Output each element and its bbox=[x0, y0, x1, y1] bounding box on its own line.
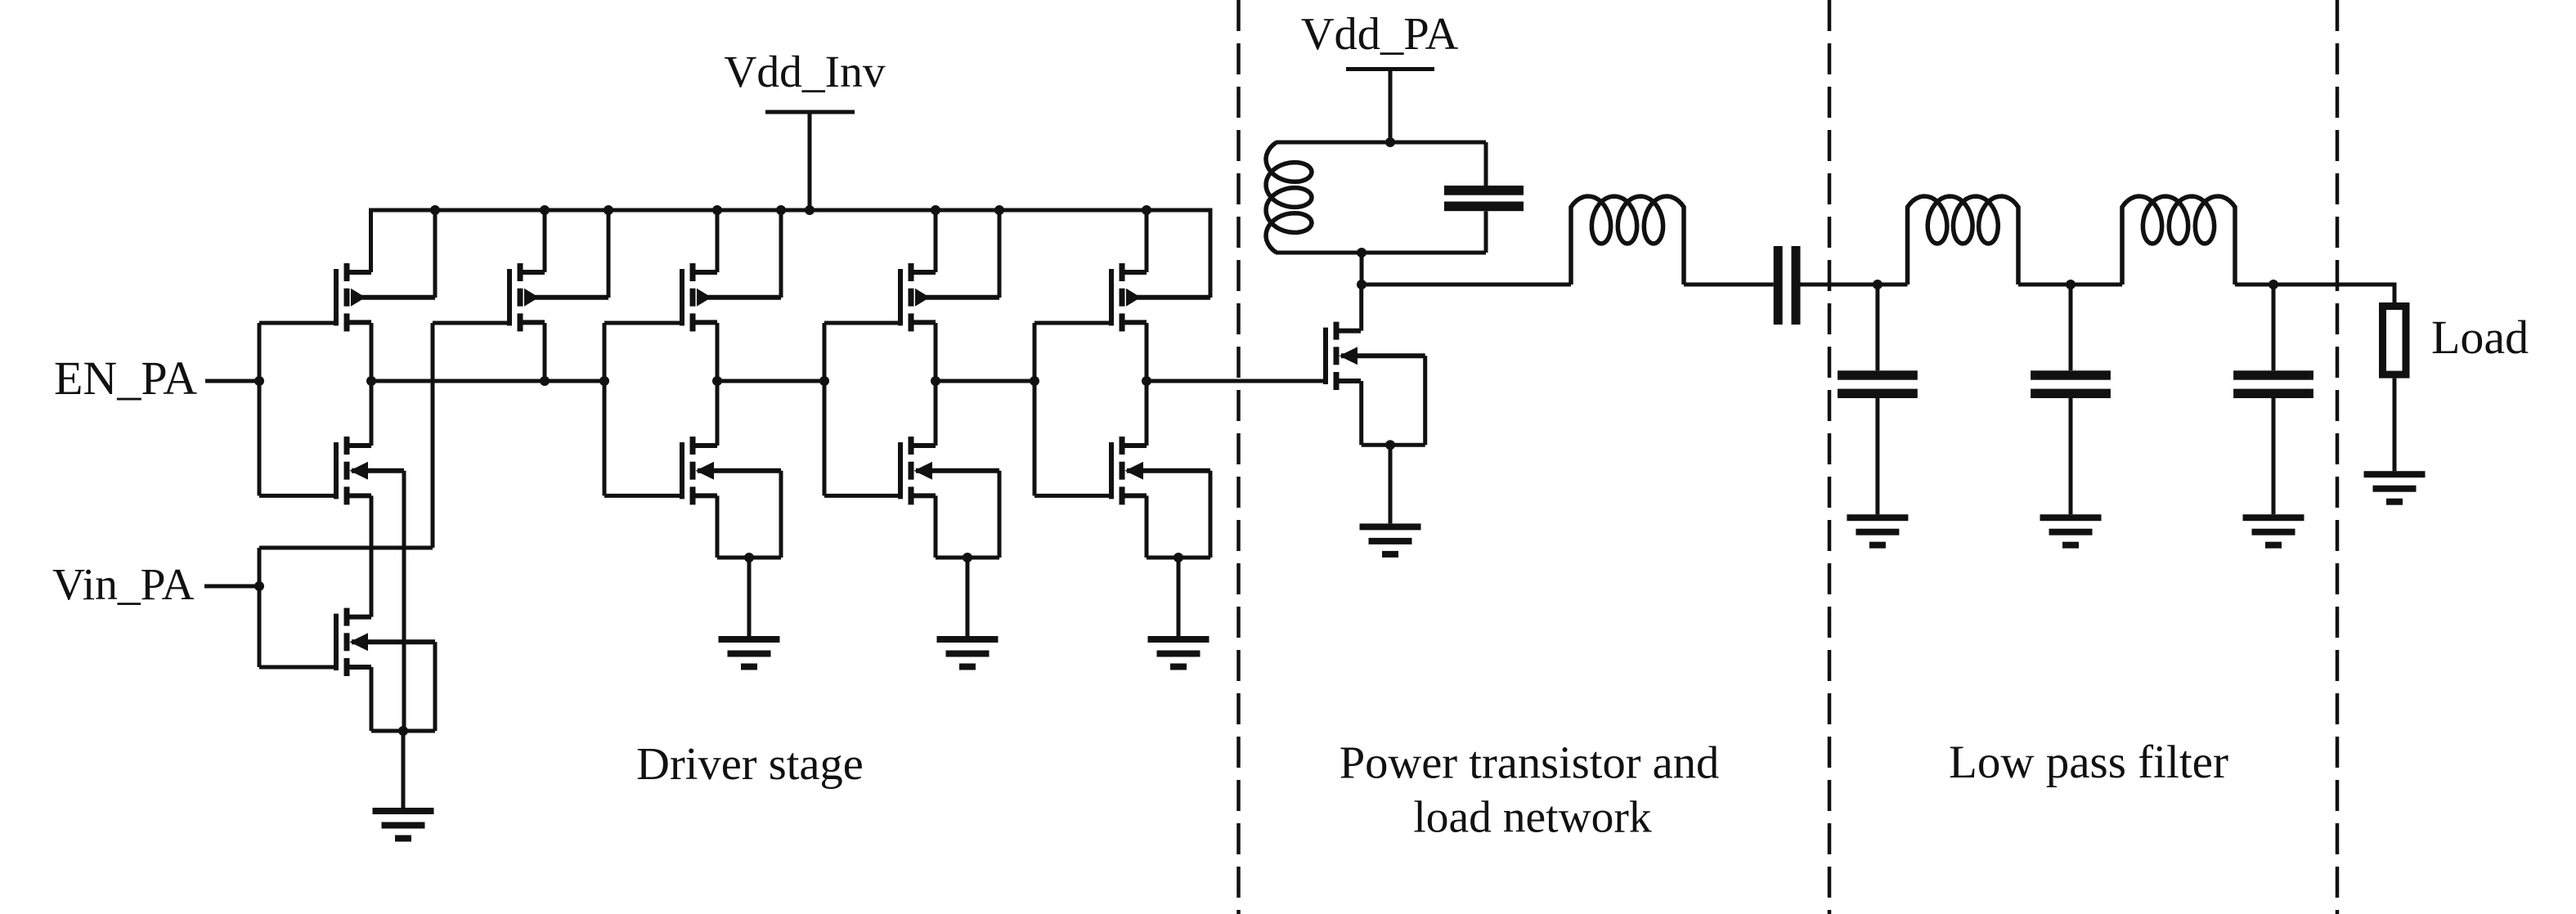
wire inverter 1 ground stem bbox=[747, 558, 752, 636]
transistor M8 NMOS (inverter 2) bbox=[900, 437, 999, 504]
wire tank bottom bbox=[1276, 251, 1486, 255]
wire inverter 1 NMOS drain up bbox=[716, 381, 720, 446]
wire drain node riser bbox=[1360, 253, 1364, 285]
wire M2 gate riser bbox=[431, 323, 435, 548]
wire inverter 2 NMOS body down bbox=[998, 471, 1002, 558]
svg-text:Driver stage: Driver stage bbox=[636, 739, 864, 790]
capacitor C2 (series DC block) bbox=[1774, 246, 1801, 325]
wire C2 to LPF node 1 bbox=[1801, 283, 1908, 287]
wire inverter 3 source tie bar bbox=[1147, 556, 1210, 560]
wire drain node to L2 bbox=[1362, 283, 1571, 287]
power symbol Vdd_PA supply bar bbox=[1346, 67, 1434, 71]
transistor M10 NMOS (inverter 3) bbox=[1111, 437, 1210, 504]
transistor M5 PMOS (inverter 1) bbox=[682, 263, 781, 331]
wire Vin_PA riser bbox=[258, 548, 262, 667]
wire tank top bbox=[1276, 141, 1486, 145]
wire Vin_PA lead bbox=[204, 585, 259, 589]
wire inverter 1 input riser bbox=[603, 323, 607, 495]
wire inverter 1 NMOS body down bbox=[779, 471, 783, 558]
wire shunt capacitor C3 to ground bbox=[1875, 398, 1879, 514]
ground inverter 1 bbox=[719, 636, 780, 670]
inductor L3 (LPF) bbox=[1908, 196, 2019, 285]
wire Vdd_Inv rail bbox=[371, 210, 1211, 298]
wire power NMOS source down bbox=[1359, 381, 1363, 445]
wire shunt capacitor C3 riser bbox=[1875, 285, 1879, 370]
wire power NMOS body down bbox=[1423, 356, 1427, 445]
wire M4 source down bbox=[370, 667, 374, 731]
wire inverter 2 NMOS gate lead bbox=[824, 494, 900, 498]
wire EN_PA gate riser bbox=[258, 323, 262, 495]
transistor M10 power NMOS bbox=[1326, 322, 1425, 390]
wire inverter 3 output bbox=[1147, 379, 1326, 383]
ground inverter 3 bbox=[1148, 636, 1209, 670]
resistor Load bbox=[2383, 307, 2407, 375]
wire load to ground bbox=[2393, 379, 2397, 472]
wire L2 to C2 bbox=[1684, 283, 1774, 287]
section divider dashed line 2 bbox=[1828, 0, 1832, 914]
section divider dashed line 1 bbox=[1236, 0, 1241, 914]
wire LPF node 2 bbox=[2018, 283, 2122, 287]
wire M3 gate lead bbox=[259, 494, 336, 498]
inductor L2 (series matching) bbox=[1571, 196, 1684, 285]
inductor L4 (LPF) bbox=[2122, 196, 2235, 285]
wire inverter 1 PMOS body to rail bbox=[779, 210, 783, 298]
wire M1 drain down bbox=[370, 323, 374, 381]
wire NAND output node bbox=[371, 379, 604, 383]
wire inverter 2 NMOS drain up bbox=[934, 381, 938, 446]
wire Vin_PA horizontal bbox=[259, 546, 433, 550]
wire Vdd_PA stem bbox=[1389, 69, 1393, 143]
capacitor C1 (tank) bbox=[1444, 142, 1524, 253]
wire inverter 2 PMOS body to rail bbox=[998, 210, 1002, 298]
wire M3 body down bbox=[402, 471, 406, 731]
wire power NMOS drain riser bbox=[1359, 285, 1363, 331]
ground NAND stage bbox=[373, 808, 434, 842]
wire inverter 2 output bbox=[936, 379, 1034, 383]
ground inverter 2 bbox=[937, 636, 999, 670]
wire M2 source to rail bbox=[543, 210, 547, 272]
wire shunt capacitor C5 riser bbox=[2272, 285, 2276, 370]
wire inverter 1 NMOS source down bbox=[716, 495, 720, 558]
wire inverter 3 NMOS source down bbox=[1145, 495, 1149, 558]
wire inverter 3 ground stem bbox=[1177, 558, 1181, 636]
wire inverter 3 NMOS body down bbox=[1209, 471, 1213, 558]
capacitor C4 (LPF shunt) bbox=[2031, 370, 2111, 398]
wire power NMOS ground stem bbox=[1389, 445, 1393, 523]
wire inverter 1 NMOS gate lead bbox=[604, 494, 682, 498]
transistor M6 NMOS (inverter 1) bbox=[682, 437, 781, 504]
wire inverter 2 PMOS gate lead bbox=[824, 321, 900, 325]
wire M4 gate lead bbox=[259, 665, 336, 670]
wire inverter 2 NMOS source down bbox=[934, 495, 938, 558]
capacitor C3 (LPF shunt) bbox=[1838, 370, 1918, 398]
wire M3 drain up bbox=[370, 381, 374, 446]
wire inverter 1 PMOS drain down bbox=[716, 323, 720, 381]
wire power NMOS tie bar bbox=[1362, 443, 1425, 447]
wire M2 drain down bbox=[543, 323, 547, 381]
wire inverter 2 input riser bbox=[823, 323, 827, 495]
wire inverter 1 PMOS gate lead bbox=[604, 321, 682, 325]
wire NAND source tie bar bbox=[371, 729, 435, 733]
wire inverter 1 output bbox=[717, 379, 824, 383]
wire M1 gate lead bbox=[259, 321, 336, 325]
wire inverter 2 ground stem bbox=[966, 558, 970, 636]
svg-text:load network: load network bbox=[1413, 793, 1652, 843]
svg-text:EN_PA: EN_PA bbox=[54, 352, 197, 405]
ground load bbox=[2364, 471, 2426, 505]
wire inverter 1 source tie bar bbox=[717, 556, 781, 560]
wire inverter 2 PMOS source to rail bbox=[934, 210, 938, 272]
transistor M3 NMOS (NAND upper) bbox=[336, 437, 404, 504]
ground LPF shunt 2 bbox=[2040, 514, 2102, 549]
ground power stage bbox=[1360, 523, 1421, 558]
wire shunt capacitor C4 to ground bbox=[2069, 398, 2073, 514]
capacitor C5 (LPF shunt) bbox=[2233, 370, 2313, 398]
wire inverter 3 NMOS drain up bbox=[1145, 381, 1149, 446]
svg-text:Low pass filter: Low pass filter bbox=[1949, 737, 2228, 788]
ground LPF shunt 3 bbox=[2243, 514, 2304, 549]
wire inverter 3 NMOS gate lead bbox=[1034, 494, 1111, 498]
wire inverter 3 PMOS gate lead bbox=[1034, 321, 1111, 325]
svg-text:Vdd_PA: Vdd_PA bbox=[1301, 9, 1459, 60]
wire shunt capacitor C4 riser bbox=[2069, 285, 2073, 370]
wire inverter 3 PMOS drain down bbox=[1145, 323, 1149, 381]
wire inverter 1 PMOS source to rail bbox=[716, 210, 720, 272]
wire shunt capacitor C5 to ground bbox=[2272, 398, 2276, 514]
section divider dashed line 3 bbox=[2336, 0, 2340, 914]
wire M1 body to rail bbox=[433, 210, 438, 298]
wire M2 body to rail bbox=[607, 210, 611, 298]
wire inverter 3 PMOS source to rail bbox=[1145, 210, 1149, 272]
svg-text:Vdd_Inv: Vdd_Inv bbox=[724, 47, 886, 97]
wire M4 body down bbox=[433, 642, 438, 731]
wire M3 source to M4 drain bbox=[370, 495, 374, 616]
ground LPF shunt 1 bbox=[1847, 514, 1908, 549]
svg-text:Vin_PA: Vin_PA bbox=[52, 560, 195, 610]
transistor M7 PMOS (inverter 2) bbox=[900, 263, 999, 331]
power symbol Vdd_Inv supply bar bbox=[765, 110, 855, 114]
svg-text:Power transistor and: Power transistor and bbox=[1340, 738, 1719, 789]
wire LPF node 3 to load bbox=[2235, 285, 2394, 302]
wire M2 gate lead bbox=[433, 321, 509, 325]
wire inverter 3 input riser bbox=[1033, 323, 1037, 495]
transistor M9 PMOS (inverter 3) bbox=[1111, 263, 1210, 331]
wire NAND ground stem bbox=[402, 731, 406, 808]
transistor M1 PMOS (NAND, EN_PA input) bbox=[336, 263, 435, 331]
wire EN_PA lead bbox=[205, 379, 259, 383]
inductor L1 (tank RF choke) bbox=[1266, 142, 1312, 253]
wire Vdd_Inv stem bbox=[808, 112, 812, 210]
wire inverter 2 PMOS drain down bbox=[934, 323, 938, 381]
transistor M4 NMOS (NAND lower) bbox=[336, 608, 435, 676]
svg-text:Load: Load bbox=[2431, 311, 2529, 364]
wire inverter 2 source tie bar bbox=[936, 556, 999, 560]
transistor M2 PMOS (NAND, Vin_PA input) bbox=[509, 263, 608, 331]
